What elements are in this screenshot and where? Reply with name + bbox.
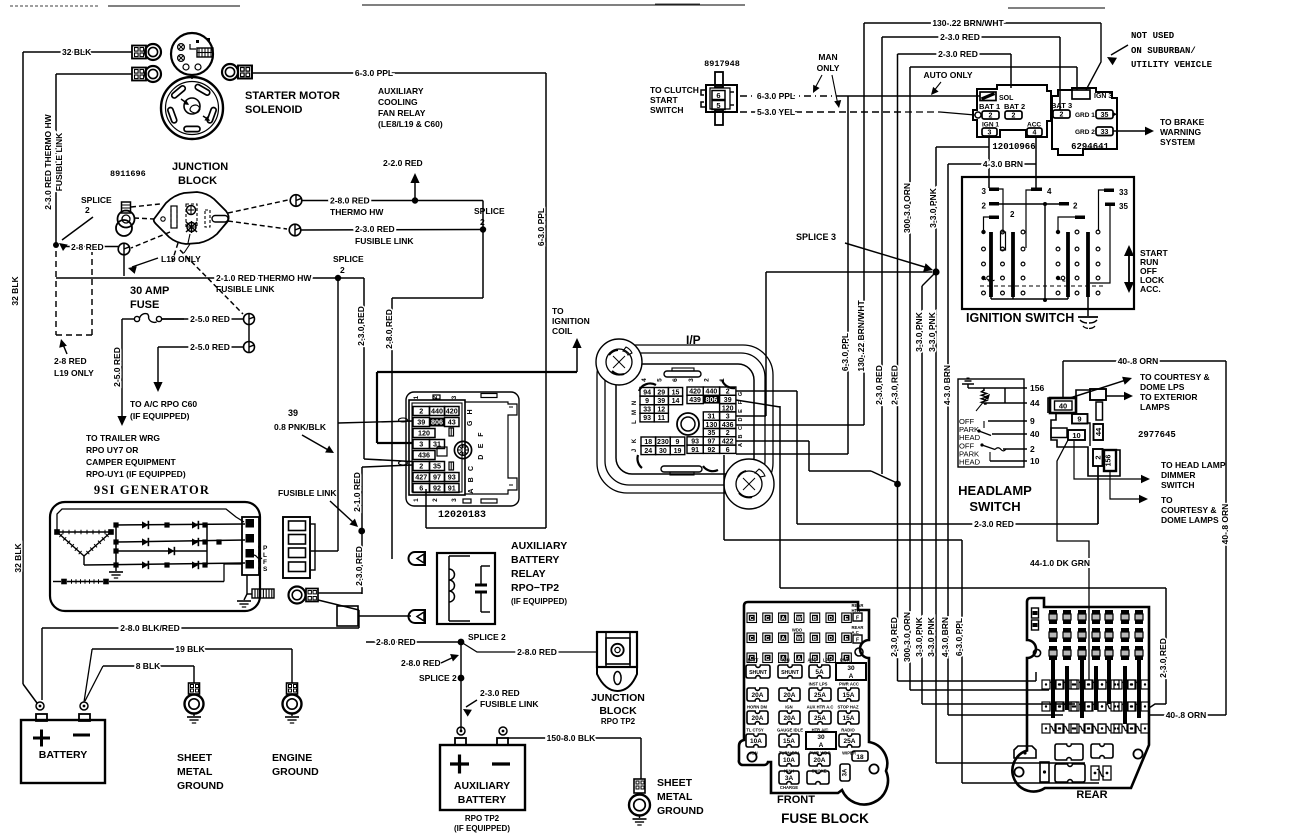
svg-text:SOL: SOL <box>999 95 1014 102</box>
svg-text:6-3.0 PPL: 6-3.0 PPL <box>757 91 795 101</box>
sheet metal ground terminal <box>189 683 200 694</box>
wire 2-3.0 RED into rear block <box>898 680 1037 682</box>
generator ring terminal <box>289 587 306 604</box>
ignition switch pin 2 left <box>989 202 999 206</box>
svg-text:REAR: REAR <box>1076 789 1107 801</box>
wire dashed L19 alternate <box>55 251 57 335</box>
svg-text:2-1.0 RED THERMO HW: 2-1.0 RED THERMO HW <box>216 273 312 283</box>
svg-text:2-3.0 RED: 2-3.0 RED <box>889 617 899 657</box>
svg-text:15A: 15A <box>783 738 795 745</box>
svg-text:FRONT: FRONT <box>777 794 815 806</box>
generator phase bus <box>115 525 117 565</box>
fuse row B <box>747 688 768 701</box>
connector 2977645 top rect <box>1090 389 1106 400</box>
svg-text:3-3.0 PNK: 3-3.0 PNK <box>914 616 924 657</box>
arrow to courtesy dome lps <box>1070 380 1126 398</box>
svg-text:M: M <box>632 410 638 415</box>
svg-text:TO BRAKE: TO BRAKE <box>1160 117 1205 127</box>
svg-text:33: 33 <box>1101 129 1109 136</box>
svg-text:12020183: 12020183 <box>438 510 486 521</box>
svg-text:TL CTSY: TL CTSY <box>746 728 764 733</box>
wire I/P pin6 bottom exit 6-3.0 PPL <box>723 455 725 540</box>
svg-text:3: 3 <box>688 378 695 382</box>
ACC terminal 4 <box>1027 128 1042 136</box>
fuse block rear first column <box>1032 608 1039 618</box>
svg-text:32 BLK: 32 BLK <box>62 47 92 57</box>
fuse row C <box>747 711 768 724</box>
svg-text:HTR: HTR <box>852 608 861 613</box>
connector 12020183 screw boss <box>454 441 471 458</box>
svg-text:RPO-UY1 (IF EQUIPPED): RPO-UY1 (IF EQUIPPED) <box>86 469 186 479</box>
svg-text:2: 2 <box>432 498 439 502</box>
headlamp pin 10 <box>990 460 1027 462</box>
svg-text:15A: 15A <box>843 692 855 699</box>
fuse block rear bus bars <box>1051 660 1055 718</box>
wire 150-8.0 BLK <box>507 737 641 739</box>
svg-text:A: A <box>738 443 744 447</box>
wire 6-3.0 PPL lower trunk <box>961 540 963 783</box>
svg-text:15A: 15A <box>843 715 855 722</box>
svg-text:BAT 3: BAT 3 <box>1051 101 1072 110</box>
svg-text:35: 35 <box>1101 112 1109 119</box>
wire splice to aux battery <box>460 642 462 731</box>
fuse block front 3A side box <box>840 764 850 781</box>
svg-text:SPLICE: SPLICE <box>81 195 112 205</box>
svg-text:2-3.0 RED: 2-3.0 RED <box>874 365 884 405</box>
svg-text:FUSE: FUSE <box>130 299 159 311</box>
wire 2-8.0 BLK/RED <box>42 627 359 629</box>
svg-text:RPO TP2: RPO TP2 <box>465 814 500 823</box>
wire 2-8 RED <box>62 246 118 248</box>
svg-text:3A: 3A <box>785 775 794 782</box>
headlamp switch box <box>958 379 1024 467</box>
headlamp resistor <box>983 388 985 391</box>
node splice 2 mid <box>480 226 486 232</box>
svg-text:2977645: 2977645 <box>1138 430 1176 440</box>
svg-text:FUSIBLE LINK: FUSIBLE LINK <box>216 284 275 294</box>
svg-text:L19 ONLY: L19 ONLY <box>161 254 201 264</box>
svg-text:LAMPS: LAMPS <box>1140 402 1170 412</box>
svg-text:94: 94 <box>643 389 651 396</box>
svg-text:3: 3 <box>451 498 458 502</box>
svg-text:93: 93 <box>448 473 456 482</box>
battery positive terminal <box>36 702 44 710</box>
ignition switch pin 35 <box>1105 203 1115 207</box>
svg-text:A.C: A.C <box>852 630 859 635</box>
svg-text:(IF EQUIPPED): (IF EQUIPPED) <box>130 411 190 421</box>
ring terminal battery 32 BLK <box>145 44 161 60</box>
svg-text:33: 33 <box>1119 188 1128 197</box>
svg-text:12010966: 12010966 <box>992 142 1035 152</box>
generator ground 1 <box>115 565 117 571</box>
svg-text:GAUGE IDLE: GAUGE IDLE <box>777 728 803 733</box>
connector terminal 40 <box>1050 398 1076 413</box>
svg-text:19 BLK: 19 BLK <box>175 644 205 654</box>
svg-text:COIL: COIL <box>552 326 572 336</box>
svg-text:P: P <box>263 545 268 552</box>
svg-text:SOLENOID: SOLENOID <box>245 104 303 116</box>
svg-text:2: 2 <box>989 113 993 120</box>
svg-text:C: C <box>750 636 754 642</box>
svg-text:K: K <box>632 438 638 443</box>
svg-text:ENGINE: ENGINE <box>272 752 312 764</box>
svg-text:A: A <box>781 616 785 622</box>
node 2-2.0 RED junction <box>412 197 418 203</box>
wire 3-3.0 PNK trunk 1 <box>922 272 936 286</box>
svg-text:3: 3 <box>982 187 987 196</box>
svg-text:COURTESY &: COURTESY & <box>1161 505 1217 515</box>
svg-text:39: 39 <box>417 418 425 427</box>
svg-text:N: N <box>632 401 638 405</box>
ignition switch ground <box>1087 297 1089 316</box>
wire 19 BLK <box>84 649 92 702</box>
svg-text:2-8.0 RED: 2-8.0 RED <box>376 637 416 647</box>
relay coil <box>449 569 455 580</box>
svg-text:F: F <box>856 616 859 622</box>
svg-text:BATTERY: BATTERY <box>511 554 559 566</box>
fuse row D <box>746 734 766 747</box>
wire 6-3.0 PPL into rear block <box>962 782 1099 784</box>
wire 2-5.0 RED upper <box>162 318 243 320</box>
svg-text:10: 10 <box>1072 431 1080 440</box>
svg-text:WARNING: WARNING <box>1160 127 1201 137</box>
svg-text:BATT: BATT <box>748 658 759 663</box>
svg-text:3-3.0 PNK: 3-3.0 PNK <box>928 187 938 228</box>
svg-text:5: 5 <box>716 101 720 110</box>
svg-text:40: 40 <box>1030 429 1040 439</box>
svg-text:9: 9 <box>1077 415 1081 424</box>
wire 5-3.0 YEL dash <box>740 111 905 113</box>
fuse block front bulge hole <box>869 764 878 773</box>
wire 2-5.0 RED fuse left / arrow to trailer wiring <box>110 318 122 320</box>
GRD 2 terminal 33 <box>1096 127 1113 136</box>
fuse 30A PWR ACC <box>836 663 866 680</box>
link between terminals <box>248 325 250 342</box>
svg-text:LPS: LPS <box>823 658 831 663</box>
svg-text:33: 33 <box>643 407 651 414</box>
fuse block rear cartridge columns <box>1049 610 1057 614</box>
wire 4-3.0 BRN trunk <box>947 164 949 715</box>
wire 2-8.0 RED THERMO HW <box>302 200 412 202</box>
arrow to exterior lamps <box>1106 395 1126 397</box>
aux battery positive terminal <box>457 727 465 735</box>
svg-text:32 BLK: 32 BLK <box>13 543 23 573</box>
svg-text:806: 806 <box>431 418 443 427</box>
svg-text:2-3.0 RED: 2-3.0 RED <box>480 688 520 698</box>
relay contact plates <box>475 584 487 587</box>
svg-text:IGNITION: IGNITION <box>552 316 590 326</box>
svg-text:D: D <box>478 455 485 460</box>
connector 12010966 outline <box>973 85 1051 137</box>
wire 40-.8 ORN right vertical <box>1225 361 1227 715</box>
svg-text:G: G <box>738 392 744 396</box>
fuse block rear bottom components <box>1055 744 1083 760</box>
svg-text:6-3.0 PPL: 6-3.0 PPL <box>536 208 546 246</box>
connector 12020183 edge slots <box>433 395 440 399</box>
svg-text:156: 156 <box>1030 383 1044 393</box>
svg-text:BAT 2: BAT 2 <box>1004 102 1025 111</box>
svg-text:COOLING: COOLING <box>378 97 418 107</box>
ring terminal lower left <box>145 66 161 82</box>
svg-text:TO HEAD LAMP: TO HEAD LAMP <box>1161 460 1226 470</box>
svg-text:L: L <box>263 552 267 559</box>
svg-text:TO: TO <box>1161 495 1173 505</box>
ignition switch dashed travel line <box>980 285 1105 287</box>
relay terminal 2 <box>409 610 425 623</box>
svg-text:3A: 3A <box>843 768 849 776</box>
svg-text:2: 2 <box>419 407 423 416</box>
generator rail 4 <box>84 563 245 565</box>
svg-text:SPLICE: SPLICE <box>474 206 505 216</box>
I/P connector shell <box>597 345 773 493</box>
svg-text:92: 92 <box>708 447 716 454</box>
wire 40-.8 ORN from terminal 40 <box>1062 361 1064 398</box>
svg-text:20A: 20A <box>784 692 796 699</box>
svg-text:4: 4 <box>1033 130 1037 137</box>
wire 2-8.0 RED to junction block TP2 <box>461 642 598 652</box>
svg-text:6: 6 <box>726 447 730 454</box>
svg-text:ACC.: ACC. <box>1140 284 1161 294</box>
svg-text:W: W <box>796 616 802 622</box>
svg-text:11: 11 <box>658 415 666 422</box>
svg-text:INST LPS: INST LPS <box>809 682 828 687</box>
ignition switch pin 4 <box>1031 188 1042 192</box>
svg-text:120: 120 <box>418 429 430 438</box>
svg-text:2-8.0 BLK/RED: 2-8.0 BLK/RED <box>120 623 180 633</box>
svg-text:2-3.0 RED: 2-3.0 RED <box>940 32 980 42</box>
svg-text:SHEET: SHEET <box>657 777 693 789</box>
svg-text:2: 2 <box>1030 444 1035 454</box>
fuse row E <box>779 753 799 766</box>
svg-text:2-8.0 RED: 2-8.0 RED <box>384 309 394 349</box>
node splice 2 on left wire <box>53 242 59 248</box>
svg-text:4-3.0 BRN: 4-3.0 BRN <box>940 617 950 657</box>
svg-text:2-1.0 RED: 2-1.0 RED <box>352 472 362 512</box>
svg-text:2: 2 <box>1073 202 1078 211</box>
svg-text:DOME LAMPS: DOME LAMPS <box>1161 515 1219 525</box>
battery negative terminal <box>80 702 88 710</box>
svg-text:14: 14 <box>672 398 680 405</box>
svg-text:START: START <box>650 95 679 105</box>
I/P upper-left pin grid <box>640 388 654 397</box>
svg-text:20A: 20A <box>814 757 826 764</box>
svg-text:18: 18 <box>856 754 864 761</box>
wire 2-5.0 RED lower <box>158 346 244 348</box>
svg-text:SPLICE 2: SPLICE 2 <box>468 632 506 642</box>
svg-text:MAN: MAN <box>818 52 837 62</box>
fuse row F <box>779 771 799 784</box>
svg-text:8 BLK: 8 BLK <box>136 661 161 671</box>
svg-text:91: 91 <box>448 484 456 493</box>
fuse block front outline <box>739 602 888 804</box>
generator external connector <box>283 517 310 578</box>
wire I/P pin 2 row6 to splice node <box>736 440 809 442</box>
svg-text:B: B <box>813 616 817 622</box>
ignition switch slot <box>1001 232 1006 250</box>
svg-text:(LE8/L19 & C60): (LE8/L19 & C60) <box>378 119 443 129</box>
svg-text:RPO UY7 OR: RPO UY7 OR <box>86 445 138 455</box>
svg-text:SHUNT: SHUNT <box>781 670 800 676</box>
IGN 3 terminal <box>1072 90 1090 99</box>
wire 6-3.0 PPL man/auto to SOL <box>843 95 980 97</box>
svg-text:8911696: 8911696 <box>110 169 146 179</box>
svg-text:SPLICE 2: SPLICE 2 <box>419 673 457 683</box>
wire 32 BLK to solenoid <box>23 51 132 53</box>
svg-text:9: 9 <box>1030 416 1035 426</box>
svg-text:6: 6 <box>419 484 423 493</box>
svg-text:G: G <box>467 420 474 426</box>
connector terminal 10 <box>1068 430 1085 440</box>
svg-text:5-3.0 YEL: 5-3.0 YEL <box>757 107 795 117</box>
svg-text:DIMMER: DIMMER <box>1161 470 1195 480</box>
svg-text:2-5.0 RED: 2-5.0 RED <box>190 342 230 352</box>
svg-text:130-.22 BRN/WHT: 130-.22 BRN/WHT <box>856 300 866 372</box>
svg-text:SHUNT: SHUNT <box>749 670 768 676</box>
connector 12020183 key slots <box>449 428 454 436</box>
svg-text:2: 2 <box>703 378 710 382</box>
svg-text:IGNITION SWITCH: IGNITION SWITCH <box>966 311 1074 325</box>
wire I/P pin3 to splice 3 <box>736 415 766 417</box>
svg-text:GROUND: GROUND <box>657 805 704 817</box>
svg-text:97: 97 <box>433 473 441 482</box>
svg-text:HORN DM: HORN DM <box>747 705 768 710</box>
svg-text:A: A <box>849 673 854 680</box>
svg-text:SPLICE 3: SPLICE 3 <box>796 232 836 242</box>
BAT 2 terminal 2 <box>1005 111 1022 119</box>
connector 12020183 right plate <box>465 402 517 494</box>
svg-text:BATTERY: BATTERY <box>39 749 87 761</box>
svg-text:2-3.0 RED: 2-3.0 RED <box>354 546 364 586</box>
svg-text:SWITCH: SWITCH <box>650 105 684 115</box>
terminal circle upper <box>244 314 255 325</box>
generator rail 2 <box>116 540 245 542</box>
wire 4-3.0 BRN into rear block <box>948 714 1063 716</box>
BAT 1 terminal 2 <box>982 111 999 119</box>
svg-text:E: E <box>845 616 849 622</box>
ignition switch internal wires <box>999 189 1003 232</box>
node splice 3 <box>932 268 939 275</box>
generator diodes <box>142 521 148 528</box>
wire 2-3.0 RED trunk (dot line) <box>897 54 899 681</box>
svg-text:39: 39 <box>657 398 665 405</box>
svg-text:44: 44 <box>1030 398 1040 408</box>
svg-text:427: 427 <box>415 473 427 482</box>
wire I/P pin39 down to rear fuse block <box>736 400 780 407</box>
generator output connector <box>242 517 259 575</box>
arrow to A/C RPO C60 <box>157 347 159 388</box>
connector terminal 9 <box>1072 414 1088 424</box>
svg-text:IGN: IGN <box>782 658 789 663</box>
svg-text:TO TRAILER WRG: TO TRAILER WRG <box>86 433 160 443</box>
svg-text:UTILITY VEHICLE: UTILITY VEHICLE <box>1131 60 1213 70</box>
fuse block front fuses <box>746 665 770 678</box>
wire 32 BLK left vertical <box>22 52 24 684</box>
svg-text:AUXILIARY: AUXILIARY <box>454 780 510 792</box>
svg-text:F: F <box>478 432 485 437</box>
generator stator lower winding <box>61 579 67 585</box>
svg-text:TO COURTESY &: TO COURTESY & <box>1140 372 1210 382</box>
svg-text:300-3.0 ORN: 300-3.0 ORN <box>902 183 912 233</box>
svg-text:BLOCK: BLOCK <box>599 705 637 717</box>
headlamp pin 9 <box>988 420 1027 422</box>
fuse block front right hole <box>855 648 863 656</box>
svg-text:2-3.0 RED THERMO HW: 2-3.0 RED THERMO HW <box>43 113 53 209</box>
svg-text:SPLICE: SPLICE <box>333 254 364 264</box>
svg-text:6: 6 <box>672 378 679 382</box>
svg-text:440: 440 <box>706 389 718 396</box>
svg-text:10: 10 <box>1030 456 1040 466</box>
svg-text:GRD 2: GRD 2 <box>1075 129 1095 136</box>
wire 2-3.0 RED top run to 12010966 <box>898 53 1012 55</box>
svg-text:IGN 3: IGN 3 <box>1094 93 1112 100</box>
svg-text:IGN: IGN <box>750 751 757 756</box>
svg-text:ACC: ACC <box>807 658 816 663</box>
svg-text:JUNCTION: JUNCTION <box>172 161 228 173</box>
wire 3-3.0 PNK 2 into rear block <box>936 762 1085 764</box>
svg-text:2-3.0 RED: 2-3.0 RED <box>938 49 978 59</box>
svg-text:2: 2 <box>419 462 423 471</box>
I/P bottom-right mounting lobe <box>724 459 774 509</box>
svg-text:HEADLAMP: HEADLAMP <box>958 483 1032 498</box>
wire ignition 1 feed <box>988 136 990 188</box>
svg-text:40: 40 <box>1059 402 1067 411</box>
svg-text:L: L <box>632 420 638 424</box>
ignition switch contact dots <box>981 230 985 234</box>
svg-text:BAT 1: BAT 1 <box>979 102 1000 111</box>
wire I/P pin2 to 2-3.0 RED headlamp feed <box>736 390 797 392</box>
svg-text:C: C <box>750 616 754 622</box>
svg-text:2: 2 <box>85 205 90 215</box>
wire 4-3.0 BRN to ACC <box>948 163 1036 165</box>
svg-text:BATTERY: BATTERY <box>458 794 506 806</box>
svg-text:2: 2 <box>1093 455 1102 459</box>
svg-text:2: 2 <box>340 265 345 275</box>
svg-text:BLOCK: BLOCK <box>178 175 217 187</box>
svg-text:2-3.0 RED: 2-3.0 RED <box>1158 638 1168 678</box>
I/P center boss <box>677 413 699 435</box>
svg-text:FUSIBLE LINK: FUSIBLE LINK <box>278 488 337 498</box>
generator rail 1 <box>116 524 245 525</box>
svg-text:A: A <box>819 742 824 749</box>
I/P slots <box>664 371 701 377</box>
svg-text:93: 93 <box>643 415 651 422</box>
svg-text:32 BLK: 32 BLK <box>10 276 20 306</box>
I/P corner arcs <box>639 383 656 391</box>
svg-text:C: C <box>766 636 770 642</box>
junction block bolt symbol <box>187 223 196 232</box>
wire I/P pin436 to 130-.22 BRN/WHT <box>736 424 864 426</box>
svg-text:TO CLUTCH: TO CLUTCH <box>650 85 699 95</box>
wire to brake warning system <box>1113 130 1146 132</box>
junction block stud terminal <box>122 202 131 213</box>
svg-text:D: D <box>829 636 833 642</box>
fuse symbol 30A <box>122 318 135 320</box>
svg-text:C: C <box>738 426 744 430</box>
svg-text:2-5.0 RED: 2-5.0 RED <box>190 314 230 324</box>
svg-text:PWR ACC: PWR ACC <box>839 682 859 687</box>
svg-text:A: A <box>468 489 475 494</box>
latch ovals left edge <box>399 418 408 422</box>
svg-text:2-8 RED: 2-8 RED <box>71 242 104 252</box>
svg-text:RADIO: RADIO <box>841 728 855 733</box>
svg-text:6294641: 6294641 <box>1071 142 1109 152</box>
svg-text:2-2.0 RED: 2-2.0 RED <box>383 158 423 168</box>
wire 2-8.0 RED left of splice <box>366 641 458 643</box>
svg-text:2: 2 <box>1010 210 1015 219</box>
svg-text:CAMPER EQUIPMENT: CAMPER EQUIPMENT <box>86 457 177 467</box>
svg-text:2-8 RED: 2-8 RED <box>54 356 87 366</box>
svg-text:AUTO ONLY: AUTO ONLY <box>923 70 972 80</box>
